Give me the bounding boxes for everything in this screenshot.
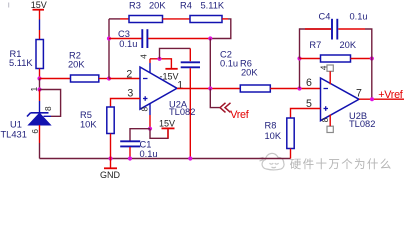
-15V supply wire: [150, 59, 179, 82]
capacitor C3: [109, 29, 210, 49]
resistor R1: [9, 40, 43, 69]
wire R5 to ground rail: [110, 134, 112, 159]
wire 15V bar to R1 top: [39, 10, 41, 40]
wire node G to R7: [300, 58, 321, 60]
svg-text:4: 4: [138, 54, 148, 59]
wire U2B output to +Vref: [359, 98, 404, 100]
svg-text:R3: R3: [129, 1, 141, 11]
svg-text:TL082: TL082: [349, 119, 375, 129]
svg-text:R8: R8: [265, 121, 277, 131]
wire node A to node B: [39, 79, 41, 90]
wire U2A output to node E: [177, 88, 240, 90]
node C1-rail junction: [128, 156, 132, 160]
resistor R4: [180, 1, 225, 23]
wire 15V node to C1: [130, 129, 150, 141]
svg-text:7: 7: [356, 87, 362, 99]
svg-text:R7: R7: [309, 40, 321, 50]
top feedback wire to R3: [109, 18, 129, 20]
C4 top wire left: [300, 28, 332, 30]
stray screen artifact dash top-left: [8, 3, 10, 8]
node I junction (output/feedback): [370, 97, 374, 101]
node C junction (inverting input node): [107, 76, 111, 80]
feedback vertical node F to R7 row: [299, 59, 301, 89]
svg-text:1: 1: [29, 87, 39, 92]
svg-text:10K: 10K: [80, 120, 97, 130]
node A junction: [37, 76, 41, 80]
svg-text:C4: C4: [319, 12, 331, 22]
svg-text:2: 2: [126, 68, 132, 80]
U2A pin 4 stub: [149, 59, 151, 73]
wire node B to U1 cathode: [39, 90, 41, 113]
wire U1 ref loop (node B to ref pin): [40, 90, 61, 117]
svg-text:TL082: TL082: [169, 107, 195, 117]
svg-text:6: 6: [306, 77, 312, 89]
capacitor C4: [319, 12, 368, 40]
svg-text:10K: 10K: [265, 131, 282, 141]
resistor R2: [68, 50, 99, 82]
node D junction: [208, 36, 212, 40]
feedback vertical node D to output node: [209, 39, 211, 89]
node H junction (R7 right): [370, 56, 374, 60]
svg-text:8: 8: [320, 117, 330, 122]
Vref port marker: [220, 103, 250, 121]
resistor R3: [129, 1, 166, 23]
wire node A to R2: [40, 78, 71, 80]
wire R4 to node D (elbow): [210, 19, 231, 39]
wire R2 to node C: [99, 78, 109, 80]
U2B pin 4 no-connect square: [327, 65, 333, 84]
wire -15V branch to C2: [160, 48, 191, 58]
svg-text:R4: R4: [180, 1, 192, 11]
svg-text:+Vref: +Vref: [378, 89, 404, 101]
svg-text:0.1u: 0.1u: [220, 58, 238, 68]
svg-text:C3: C3: [118, 29, 130, 39]
op-amp U2B: [321, 78, 376, 129]
svg-text:5.11K: 5.11K: [201, 1, 225, 11]
svg-text:U1: U1: [10, 119, 22, 129]
node E junction (output node): [208, 86, 212, 90]
U2B pin 8 no-connect square: [327, 115, 333, 133]
svg-text:20K: 20K: [149, 1, 166, 11]
svg-text:0.1u: 0.1u: [119, 39, 137, 49]
svg-text:8: 8: [43, 106, 53, 111]
power +15V bar top left: [31, 0, 47, 10]
svg-text:TL431: TL431: [1, 130, 27, 140]
wire R8 to ground rail: [290, 149, 292, 159]
U1 TL431 shunt reference (zener-style symbol): [1, 113, 51, 140]
node F junction (pin6 node): [297, 86, 301, 90]
svg-text:15V: 15V: [31, 0, 47, 10]
op-amp U2A: [140, 67, 195, 117]
svg-text:0.1u: 0.1u: [350, 12, 368, 22]
resistor R7: [309, 40, 356, 62]
svg-text:硬件十万个为什么: 硬件十万个为什么: [290, 157, 393, 171]
wire R7 to node H: [351, 58, 372, 60]
wire R3 to R4: [163, 18, 191, 20]
svg-text:20K: 20K: [340, 40, 357, 50]
C4 loop left vertical: [299, 28, 301, 58]
svg-text:20K: 20K: [241, 67, 258, 77]
feedback vertical wire at node C: [108, 19, 110, 79]
15V supply loop at U2A: [150, 119, 175, 139]
node G junction (R7 left): [297, 56, 301, 60]
svg-text:-15V: -15V: [160, 71, 179, 81]
svg-text:R5: R5: [80, 110, 92, 120]
svg-text:3: 3: [127, 87, 133, 99]
C4 top wire right: [338, 29, 372, 59]
watermark logo: [260, 153, 285, 170]
node C3-left junction: [107, 36, 111, 40]
svg-text:GND: GND: [100, 170, 121, 180]
svg-text:Vref: Vref: [230, 109, 250, 121]
feedback vertical node H to output: [371, 59, 373, 100]
Vref tap wire: [210, 89, 219, 108]
svg-text:5.11K: 5.11K: [9, 58, 33, 68]
capacitor C2: [181, 50, 238, 159]
svg-text:0.1u: 0.1u: [140, 149, 158, 159]
ground symbol GND: [100, 156, 121, 180]
wire R1 bottom to node A: [39, 69, 41, 79]
resistor R5: [80, 107, 114, 134]
capacitor C1: [120, 140, 157, 159]
wire R6 to U2B pin 6: [270, 88, 320, 90]
U2A pin 8 stub: [149, 104, 151, 129]
wire U2B pin 5 to R8: [291, 109, 321, 119]
node B junction: [37, 87, 41, 91]
wire node C to U2A pin 2: [109, 78, 140, 80]
ground rail wire: [40, 158, 291, 160]
wire U2A pin 3 to R5: [111, 99, 141, 108]
svg-text:6: 6: [30, 129, 40, 134]
svg-text:20K: 20K: [68, 59, 85, 69]
resistor R8: [265, 118, 295, 149]
node 15V junction: [148, 127, 152, 131]
svg-text:8: 8: [140, 107, 150, 112]
resistor R6: [240, 58, 270, 92]
svg-text:4: 4: [319, 65, 329, 70]
wire U1 anode to ground rail: [39, 125, 41, 143]
node -15V junction: [157, 57, 161, 61]
svg-text:15V: 15V: [159, 119, 175, 129]
node C2-rail junction: [188, 156, 192, 160]
